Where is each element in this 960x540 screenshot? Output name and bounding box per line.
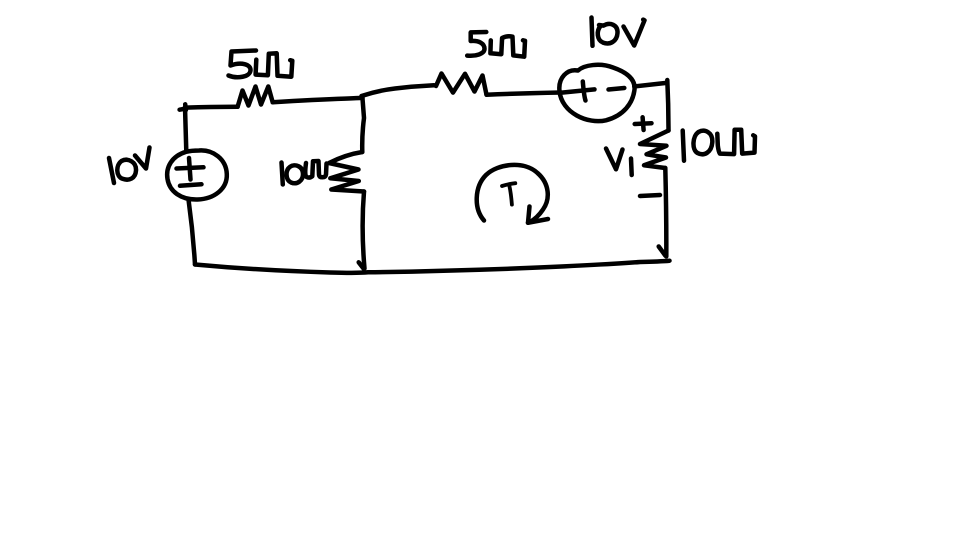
- wire: top-left rail from corner to R1: [186, 105, 238, 110]
- label "10 ohm" for R2: [282, 161, 327, 185]
- plus sign above R4 (V1 polarity): [635, 117, 652, 130]
- resistor R1 5ohm (top-left) zigzag: [238, 87, 273, 107]
- label "5 ohm" for R1: [229, 51, 293, 78]
- label "10V" for VS1 (left source): [109, 148, 150, 184]
- voltage source VS1 10V (left) circle: [167, 150, 227, 199]
- voltage source VS2 10V (top-right) circle: [559, 65, 634, 121]
- VS1 plus symbol: [177, 158, 204, 180]
- bottom rail wire: [195, 261, 670, 273]
- VS2 plus symbol (wire continues inside circle): [561, 82, 595, 101]
- wire: R1 to node A (top rail): [273, 98, 363, 103]
- arrowhead at bottom-right corner: [659, 247, 666, 256]
- loop arrowhead: [528, 207, 548, 223]
- minus sign below R4 (V1 polarity): [640, 195, 660, 196]
- resistor R4 10ohm (right vertical) zigzag: [640, 131, 669, 169]
- wire: VS2 to top-right corner: [634, 83, 665, 87]
- wire: R2 bottom down to bottom rail: [363, 192, 365, 269]
- mesh current loop arc I: [477, 165, 548, 222]
- wire: node A down to R2: [362, 99, 364, 153]
- wire: R3 to VS2: [487, 93, 562, 95]
- resistor R3 5ohm (top-middle) zigzag: [436, 74, 487, 95]
- wire: top-right corner down to R4: [667, 80, 668, 131]
- label "10V" for VS2: [592, 18, 645, 46]
- VS2 minus symbol: [609, 88, 625, 90]
- VS1 minus symbol: [180, 184, 202, 186]
- wire: top-left corner down to VS1: [185, 107, 186, 152]
- arrowhead at bottom of R2 branch: [359, 262, 364, 269]
- wire: node A to R3 (upper rail): [362, 85, 435, 96]
- label "10 ohm" for R4: [683, 130, 755, 161]
- label "I" (mesh current): [502, 183, 515, 204]
- tick at top-left corner node: [180, 104, 187, 110]
- wire: VS1 bottom to bottom-left corner: [189, 200, 196, 265]
- resistor R2 10ohm (middle vertical) zigzag: [329, 152, 364, 192]
- wire: R4 down to bottom-right corner: [665, 168, 666, 257]
- label "V1" across R4: [606, 149, 632, 176]
- label "5 ohm" for R3: [467, 32, 525, 57]
